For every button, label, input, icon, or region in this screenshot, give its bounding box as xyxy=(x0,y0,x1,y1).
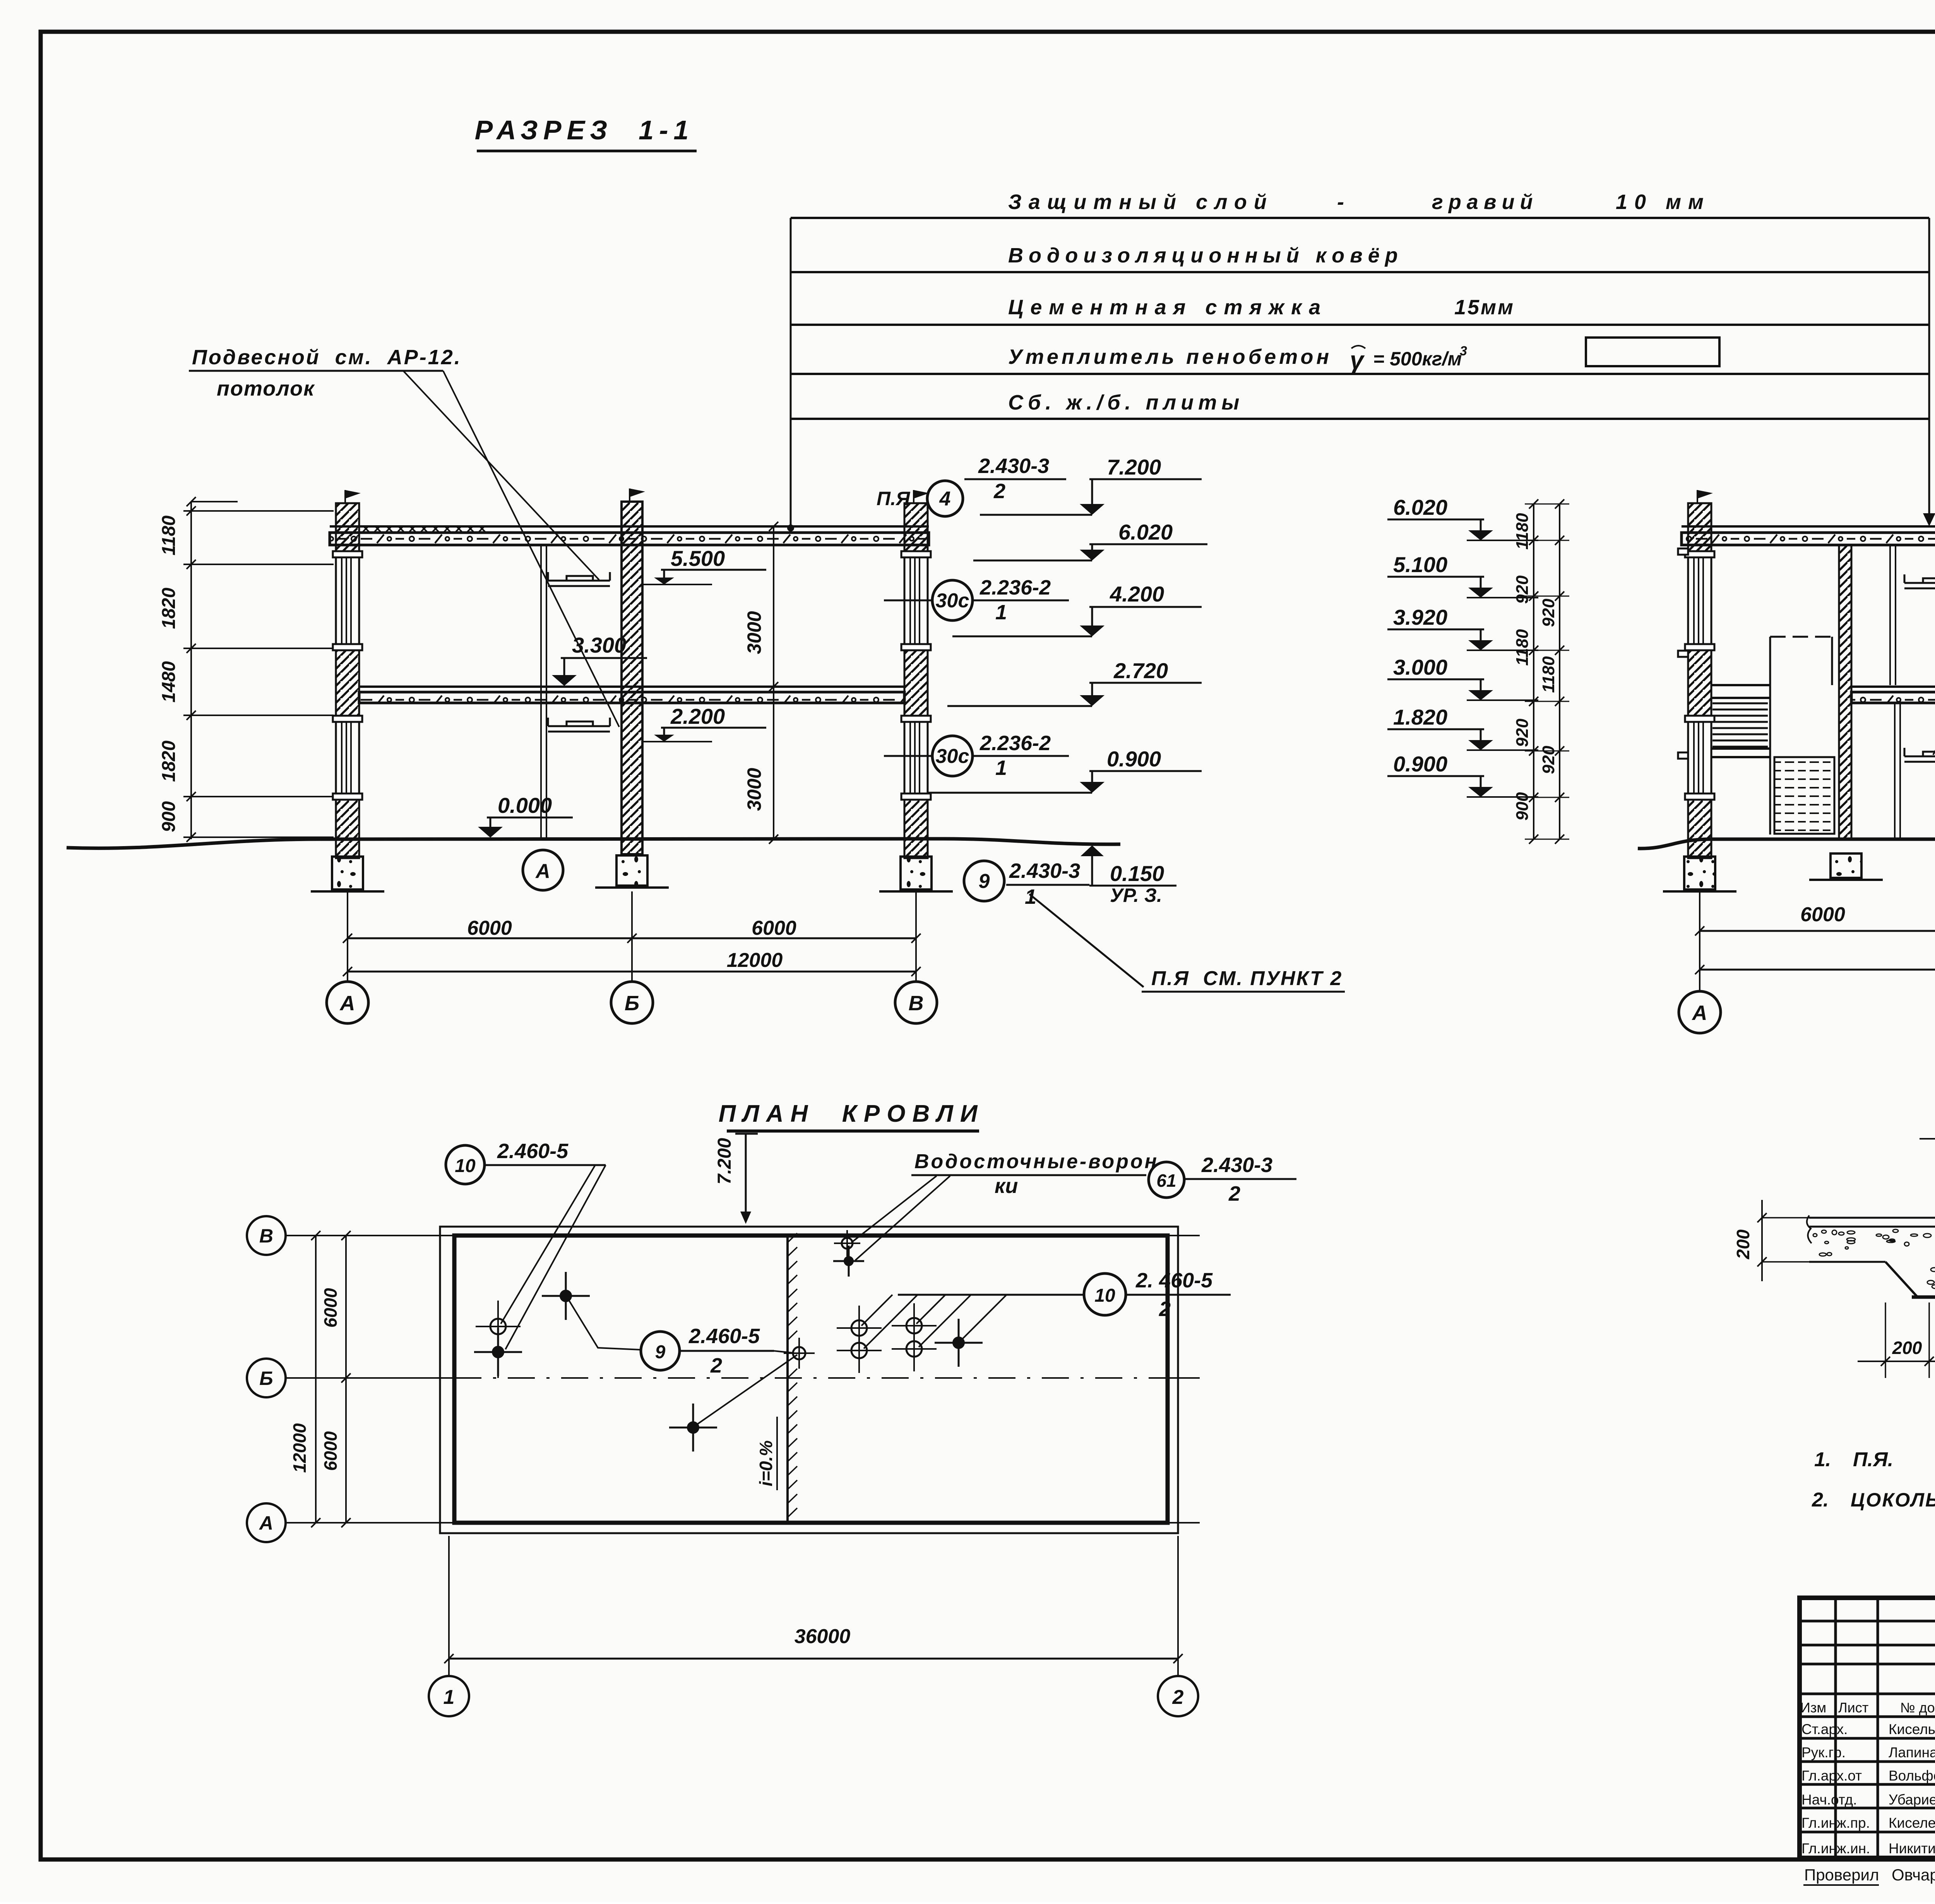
svg-text:1480: 1480 xyxy=(159,661,179,703)
svg-text:= 500кг/м: = 500кг/м xyxy=(1373,348,1462,370)
svg-text:×: × xyxy=(455,521,463,536)
svg-text:Убариев: Убариев xyxy=(1889,1792,1935,1808)
svg-text:Овчаренко: Овчаренко xyxy=(1892,1866,1935,1884)
svg-text:Никитин: Никитин xyxy=(1889,1841,1935,1856)
svg-text:1180: 1180 xyxy=(1539,656,1558,693)
svg-text:12000: 12000 xyxy=(289,1423,310,1473)
svg-text:36000: 36000 xyxy=(795,1625,851,1648)
svg-text:6000: 6000 xyxy=(467,917,512,939)
svg-text:П.Я СМ. ПУНКТ 2: П.Я СМ. ПУНКТ 2 xyxy=(1151,967,1343,990)
svg-text:30с: 30с xyxy=(936,745,969,768)
svg-text:2.460-5: 2.460-5 xyxy=(688,1325,760,1348)
svg-text:Цементная стяжка: Цементная стяжка xyxy=(1008,296,1327,319)
svg-text:15мм: 15мм xyxy=(1454,296,1515,319)
svg-text:В: В xyxy=(259,1225,273,1247)
svg-text:2.236-2: 2.236-2 xyxy=(979,576,1051,599)
svg-text:Защитный слой: Защитный слой xyxy=(1008,190,1274,214)
svg-text:3.920: 3.920 xyxy=(1393,605,1447,629)
svg-text:Лист: Лист xyxy=(1838,1700,1868,1715)
svg-text:гравий: гравий xyxy=(1432,190,1538,214)
svg-text:Б: Б xyxy=(625,992,639,1015)
svg-text:Киселева: Киселева xyxy=(1889,1815,1935,1831)
svg-text:Нач.отд.: Нач.отд. xyxy=(1801,1792,1857,1808)
svg-text:200: 200 xyxy=(1733,1229,1753,1260)
svg-text:1180: 1180 xyxy=(1513,629,1532,666)
svg-text:5.500: 5.500 xyxy=(671,546,725,571)
svg-text:2. 460-5: 2. 460-5 xyxy=(1135,1269,1213,1292)
svg-text:Кисельман: Кисельман xyxy=(1889,1721,1935,1737)
svg-text:Изм: Изм xyxy=(1800,1700,1826,1715)
svg-text:1180: 1180 xyxy=(159,515,179,555)
svg-text:2: 2 xyxy=(993,480,1005,503)
svg-text:3000: 3000 xyxy=(743,611,765,654)
svg-text:3.000: 3.000 xyxy=(1393,655,1447,679)
svg-text:6000: 6000 xyxy=(752,917,796,939)
svg-text:2.236-2: 2.236-2 xyxy=(979,732,1051,755)
svg-text:1: 1 xyxy=(995,601,1007,624)
svg-text:920: 920 xyxy=(1539,598,1558,627)
svg-text:6.020: 6.020 xyxy=(1393,495,1447,519)
svg-text:10 мм: 10 мм xyxy=(1616,190,1711,214)
svg-text:7.200: 7.200 xyxy=(714,1138,735,1184)
svg-text:Вольфензон: Вольфензон xyxy=(1889,1768,1935,1784)
svg-text:ки: ки xyxy=(995,1174,1018,1198)
svg-text:30с: 30с xyxy=(936,590,969,612)
svg-text:Гл.инж.пр.: Гл.инж.пр. xyxy=(1801,1815,1870,1831)
svg-text:Гл.инж.ин.: Гл.инж.ин. xyxy=(1801,1841,1870,1856)
svg-text:Водосточные-ворон: Водосточные-ворон xyxy=(914,1150,1159,1173)
svg-text:6000: 6000 xyxy=(1800,903,1845,926)
svg-text:2.720: 2.720 xyxy=(1113,658,1168,683)
svg-text:2: 2 xyxy=(1228,1182,1240,1205)
svg-text:×: × xyxy=(478,521,486,536)
svg-text:×: × xyxy=(420,521,428,536)
svg-text:3000: 3000 xyxy=(743,768,765,811)
svg-text:2.460-5: 2.460-5 xyxy=(497,1140,569,1163)
svg-text:1820: 1820 xyxy=(159,588,179,629)
svg-text:61: 61 xyxy=(1156,1171,1176,1191)
svg-text:0.900: 0.900 xyxy=(1393,752,1447,776)
svg-text:А: А xyxy=(339,992,355,1015)
svg-text:УР. З.: УР. З. xyxy=(1110,884,1162,906)
svg-text:6000: 6000 xyxy=(320,1431,341,1471)
svg-text:9: 9 xyxy=(979,870,990,893)
svg-text:2.430-3: 2.430-3 xyxy=(1201,1153,1272,1177)
svg-text:Подвесной см. АР-12.: Подвесной см. АР-12. xyxy=(192,346,462,369)
svg-text:i=0.%: i=0.% xyxy=(756,1440,776,1486)
svg-text:10: 10 xyxy=(455,1156,476,1176)
svg-text:4.200: 4.200 xyxy=(1110,582,1164,606)
svg-text:900: 900 xyxy=(1513,792,1532,821)
svg-text:А: А xyxy=(259,1512,273,1534)
svg-text:6.020: 6.020 xyxy=(1118,520,1173,544)
svg-text:0.900: 0.900 xyxy=(1107,747,1161,771)
svg-text:6000: 6000 xyxy=(320,1288,341,1328)
svg-text:№ докум.: № докум. xyxy=(1900,1700,1935,1715)
svg-text:×: × xyxy=(397,521,405,536)
svg-text:Утеплитель пенобетон: Утеплитель пенобетон xyxy=(1008,345,1332,368)
svg-text:γ: γ xyxy=(1350,346,1365,374)
svg-text:5.100: 5.100 xyxy=(1393,552,1447,577)
svg-text:3: 3 xyxy=(1460,344,1467,358)
svg-text:1: 1 xyxy=(995,756,1007,780)
svg-text:×: × xyxy=(466,521,474,536)
svg-text:920: 920 xyxy=(1513,718,1532,747)
svg-text:×: × xyxy=(385,521,393,536)
svg-text:9: 9 xyxy=(655,1342,666,1362)
svg-text:×: × xyxy=(362,521,370,536)
svg-text:Ст.арх.: Ст.арх. xyxy=(1801,1721,1848,1737)
svg-text:1.: 1. xyxy=(1814,1448,1831,1471)
svg-text:2: 2 xyxy=(1159,1297,1171,1321)
svg-text:РАЗРЕЗ 1-1: РАЗРЕЗ 1-1 xyxy=(475,115,694,145)
svg-text:2: 2 xyxy=(710,1354,722,1377)
svg-text:Гл.арх.от: Гл.арх.от xyxy=(1801,1768,1862,1784)
svg-text:Проверил: Проверил xyxy=(1804,1866,1879,1884)
svg-text:А: А xyxy=(535,860,550,883)
svg-text:2.200: 2.200 xyxy=(670,704,725,728)
svg-text:1: 1 xyxy=(1025,885,1036,908)
svg-text:2: 2 xyxy=(1172,1686,1184,1709)
svg-text:2.430-3: 2.430-3 xyxy=(1009,859,1080,883)
svg-text:1: 1 xyxy=(444,1686,455,1709)
svg-text:200: 200 xyxy=(1892,1338,1922,1358)
svg-text:1820: 1820 xyxy=(159,740,179,782)
svg-text:0.150: 0.150 xyxy=(1110,861,1164,886)
svg-text:В: В xyxy=(909,992,924,1015)
svg-text:×: × xyxy=(373,521,382,536)
svg-text:×: × xyxy=(408,521,416,536)
svg-text:Водоизоляционный ковёр: Водоизоляционный ковёр xyxy=(1008,244,1403,267)
svg-text:×: × xyxy=(432,521,440,536)
svg-text:потолок: потолок xyxy=(217,377,315,400)
svg-text:12000: 12000 xyxy=(727,949,783,972)
svg-text:4: 4 xyxy=(939,488,951,510)
svg-text:×: × xyxy=(443,521,451,536)
svg-text:Б: Б xyxy=(259,1368,273,1389)
svg-text:-: - xyxy=(1337,190,1344,214)
svg-text:10: 10 xyxy=(1094,1285,1115,1306)
svg-text:2.430-3: 2.430-3 xyxy=(978,454,1049,478)
svg-text:7.200: 7.200 xyxy=(1107,455,1161,479)
svg-text:Сб. ж./б. плиты: Сб. ж./б. плиты xyxy=(1008,391,1244,414)
svg-text:Рук.гр.: Рук.гр. xyxy=(1801,1745,1846,1760)
svg-text:920: 920 xyxy=(1539,745,1558,774)
svg-text:ПЛАН КРОВЛИ: ПЛАН КРОВЛИ xyxy=(719,1100,985,1127)
svg-text:А: А xyxy=(1692,1001,1707,1025)
svg-text:1180: 1180 xyxy=(1513,513,1532,550)
svg-text:920: 920 xyxy=(1513,575,1532,604)
svg-text:ЦОКОЛЬ ОБЛИЦЕВАТЬ КЕРАМИЧЕСКОЙ: ЦОКОЛЬ ОБЛИЦЕВАТЬ КЕРАМИЧЕСКОЙ ПЛИТКОЙ xyxy=(1851,1489,1935,1511)
svg-text:900: 900 xyxy=(159,801,179,832)
svg-text:П.Я.: П.Я. xyxy=(1853,1448,1893,1471)
svg-text:0.000: 0.000 xyxy=(498,793,552,817)
svg-text:3.300: 3.300 xyxy=(572,633,626,657)
svg-text:1.820: 1.820 xyxy=(1393,705,1447,729)
svg-text:П.Я: П.Я xyxy=(877,488,911,509)
svg-text:Лапина: Лапина xyxy=(1889,1745,1935,1760)
svg-text:2.: 2. xyxy=(1812,1489,1829,1511)
